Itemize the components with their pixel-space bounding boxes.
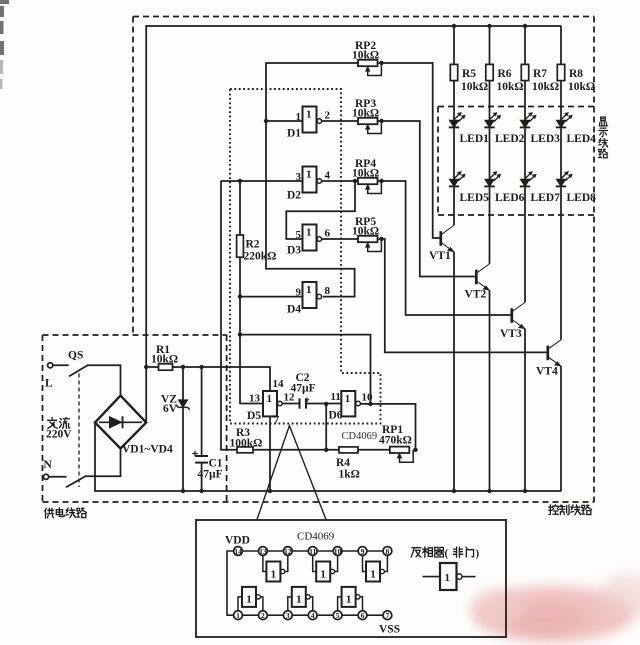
left bracket pin14 to pin1 [227, 551, 234, 615]
svg-text:6: 6 [361, 611, 365, 620]
svg-text:10kΩ: 10kΩ [352, 226, 379, 238]
svg-text:13: 13 [249, 393, 261, 405]
svg-text:10kΩ: 10kΩ [352, 108, 379, 120]
capacitor C1 [201, 367, 203, 456]
svg-text:LED5: LED5 [460, 192, 490, 204]
resistor R6 [486, 64, 493, 80]
LED5 [449, 171, 466, 186]
svg-text:1: 1 [306, 109, 312, 121]
svg-text:1: 1 [271, 569, 277, 581]
svg-text:6V: 6V [163, 403, 178, 415]
svg-text:D5: D5 [247, 410, 261, 422]
control-circuit outer dashed box [43, 17, 595, 503]
svg-text:D4: D4 [287, 304, 301, 316]
LED7 [520, 171, 537, 186]
wire: D2 input row [221, 180, 303, 182]
zener diode VZ [182, 367, 184, 400]
svg-text:VT1: VT1 [429, 250, 451, 262]
svg-text:8: 8 [386, 547, 390, 556]
svg-text:10kΩ: 10kΩ [497, 81, 524, 93]
svg-text:5: 5 [336, 611, 340, 620]
wire: bridge + output up to R1 node [145, 367, 147, 423]
capacitor C2 [282, 398, 341, 409]
dotted box around D1-D6 (CD4069 gates) [230, 89, 381, 424]
svg-text:VT4: VT4 [536, 366, 558, 378]
svg-text:(: ( [445, 548, 449, 560]
svg-text:LED3: LED3 [531, 133, 561, 145]
D6 input column down to R3/R4 node [325, 404, 327, 450]
wire: D2 input row to R3 (long left column) [221, 181, 237, 450]
svg-text:11: 11 [331, 391, 341, 403]
wire: D1 output to RP3 [322, 120, 359, 122]
svg-text:LED7: LED7 [531, 192, 561, 204]
svg-text:6: 6 [325, 228, 331, 240]
inverter gate D5 [263, 391, 282, 416]
svg-text:9: 9 [296, 287, 302, 299]
svg-text:220kΩ: 220kΩ [244, 251, 277, 263]
svg-text:CD4069: CD4069 [342, 431, 378, 442]
wire: D3 output to RP5 [322, 238, 359, 240]
LED3 [520, 112, 537, 127]
svg-text:N: N [44, 459, 53, 471]
wire: D4 input row [240, 296, 303, 298]
wire: D2 out branch down to D3 input [286, 181, 355, 239]
svg-text:1: 1 [296, 594, 302, 606]
svg-text:D1: D1 [287, 128, 301, 140]
svg-text:9: 9 [361, 547, 365, 556]
label 控制线路 (control circuit) [549, 505, 592, 515]
wire L to bridge top [89, 365, 121, 395]
transistor VT4 [548, 340, 561, 366]
wire: D2 output to RP4 [322, 180, 359, 182]
wire D6 output row to RP1 right column [360, 404, 415, 450]
svg-text:LED8: LED8 [567, 192, 597, 204]
LED column 3 with resistor R7 [524, 26, 526, 491]
LED1 [449, 112, 466, 127]
svg-text:1: 1 [296, 111, 302, 123]
power-supply dashed box [43, 335, 227, 502]
svg-text:7: 7 [274, 414, 280, 426]
potentiometer RP4 [358, 178, 381, 194]
wire RP4 to VT3 base [378, 181, 512, 315]
svg-text:220V: 220V [46, 429, 72, 441]
label 交流 220V [48, 418, 70, 429]
switch QS pole L [48, 363, 53, 368]
svg-text:4: 4 [325, 170, 331, 182]
svg-text:LED2: LED2 [495, 133, 525, 145]
svg-text:1: 1 [236, 611, 240, 620]
LED8 [556, 171, 573, 186]
svg-text:1kΩ: 1kΩ [339, 469, 360, 481]
LED4 [556, 112, 573, 127]
svg-text:1: 1 [370, 569, 376, 581]
svg-text:13: 13 [259, 547, 267, 556]
inverter gate D3 [303, 225, 322, 251]
svg-text:R5: R5 [462, 68, 476, 80]
transistor VT1 [441, 225, 454, 251]
label 反相器（非门） [411, 547, 479, 560]
wire N to bridge bottom [87, 449, 121, 477]
wire: D4 out loop up to D1 input / RP2 row [266, 63, 358, 297]
svg-text:1: 1 [445, 572, 451, 584]
svg-text:10kΩ: 10kΩ [568, 81, 595, 93]
LED column 1 with resistor R5 [453, 26, 455, 491]
standalone inverter symbol [423, 563, 476, 590]
svg-text:VD1~VD4: VD1~VD4 [122, 444, 173, 456]
watermark pink blobs bottom-right [470, 574, 640, 642]
svg-text:100kΩ: 100kΩ [230, 438, 263, 450]
transistor VT3 [512, 302, 525, 328]
feedback wire: node to D6 output column [240, 335, 371, 404]
svg-text:2: 2 [325, 110, 331, 122]
resistor R8 [557, 64, 564, 80]
svg-text:VT2: VT2 [465, 289, 487, 301]
R2 column wire: D2-in node down to D5 pin13 [240, 181, 263, 404]
potentiometer RP3 [358, 118, 381, 134]
svg-text:10kΩ: 10kΩ [352, 168, 379, 180]
svg-text:11: 11 [309, 547, 316, 556]
resistor R1 [159, 364, 173, 370]
potentiometer RP1 [390, 447, 413, 463]
wire RP2 to VT1 base [378, 63, 441, 238]
svg-text:LED1: LED1 [460, 133, 490, 145]
oscillator bottom row R3 R4 RP1 [237, 404, 390, 453]
svg-text:3: 3 [296, 171, 302, 183]
svg-text:1: 1 [246, 594, 252, 606]
bottom row gates 1-2, 3-4, 5-6 [238, 587, 263, 611]
svg-text:14: 14 [273, 378, 285, 390]
scan smudges top-left edge [0, 0, 9, 55]
display-circuit dashed box (LEDs) [438, 107, 594, 216]
LED2 [484, 112, 501, 127]
svg-text:3: 3 [286, 611, 290, 620]
svg-text:10: 10 [362, 392, 374, 404]
bridge rectifier VD1~VD4 [95, 396, 146, 449]
svg-text:470kΩ: 470kΩ [379, 435, 412, 447]
svg-text:1: 1 [306, 284, 312, 296]
inverter gate D6 [341, 391, 360, 416]
svg-text:R2: R2 [246, 239, 260, 251]
label 显示线路 (display circuit, vertical) [599, 117, 608, 158]
svg-text:D3: D3 [287, 245, 301, 257]
svg-text:LED4: LED4 [567, 133, 597, 145]
svg-text:1: 1 [267, 393, 273, 405]
ground rail wire [95, 423, 561, 492]
top row gates 13-12, 11-10, 9-8 [263, 555, 288, 581]
resistor R4 [339, 447, 358, 453]
label 供电线路 (power supply circuit) [45, 508, 87, 518]
+6V rail wire R1 row [146, 367, 270, 391]
LED6 [484, 171, 501, 186]
wire RP3 to VT2 base [378, 121, 477, 277]
pin row rails [238, 550, 387, 552]
svg-text:8: 8 [325, 285, 331, 297]
potentiometer RP2 [358, 60, 381, 76]
svg-text:2: 2 [261, 611, 265, 620]
resistor R3 [237, 447, 253, 453]
svg-text:10kΩ: 10kΩ [151, 354, 178, 366]
svg-text:47µF: 47µF [198, 469, 223, 481]
svg-text:10: 10 [334, 547, 342, 556]
wire RP5 to VT4 base [378, 239, 548, 352]
svg-text:R4: R4 [336, 457, 350, 469]
svg-text:10kΩ: 10kΩ [461, 81, 488, 93]
LED column 2 with resistor R6 [489, 26, 491, 491]
svg-text:10kΩ: 10kΩ [532, 81, 559, 93]
svg-text:47µF: 47µF [291, 383, 316, 395]
inverter gate D1 [303, 107, 322, 133]
svg-text:VDD: VDD [225, 535, 250, 547]
svg-text:D6: D6 [329, 410, 343, 422]
svg-text:5: 5 [296, 229, 302, 241]
svg-text:): ) [476, 548, 480, 560]
wire: D1 input row [266, 120, 303, 122]
svg-text:14: 14 [234, 547, 242, 556]
potentiometer RP5 [358, 236, 381, 252]
svg-text:CD4069: CD4069 [297, 531, 335, 543]
svg-text:4: 4 [311, 611, 315, 620]
pin circles [234, 547, 392, 620]
svg-text:12: 12 [284, 547, 292, 556]
resistor R7 [521, 64, 528, 80]
svg-text:10kΩ: 10kΩ [352, 50, 379, 62]
svg-text:1: 1 [345, 393, 351, 405]
svg-text:QS: QS [68, 350, 83, 362]
inverter gate D4 [303, 282, 322, 308]
supply top rail wire [146, 26, 561, 367]
svg-text:VSS: VSS [379, 624, 400, 636]
svg-text:7: 7 [386, 611, 390, 620]
LED column 4 with resistor R8 [560, 26, 562, 491]
switch gang dashed link [78, 374, 80, 488]
resistor R2 [237, 235, 244, 257]
switch QS pole N [43, 474, 48, 479]
callout lines to pinout diagram [257, 426, 326, 520]
svg-text:D2: D2 [287, 190, 301, 202]
svg-text:1: 1 [306, 227, 312, 239]
svg-text:L: L [45, 378, 53, 390]
inverter gate D2 [303, 167, 322, 193]
svg-text:1: 1 [346, 594, 352, 606]
transistor VT2 [476, 264, 489, 290]
resistor R5 [450, 64, 457, 80]
svg-text:1: 1 [320, 569, 326, 581]
svg-text:R8: R8 [569, 68, 583, 80]
svg-text:1: 1 [306, 169, 312, 181]
svg-text:VT3: VT3 [500, 328, 522, 340]
svg-text:R7: R7 [533, 68, 547, 80]
D5 pin7 wire to ground [269, 416, 271, 491]
svg-text:R6: R6 [498, 68, 512, 80]
CD4069 pinout box [196, 520, 506, 637]
svg-text:LED6: LED6 [495, 192, 525, 204]
